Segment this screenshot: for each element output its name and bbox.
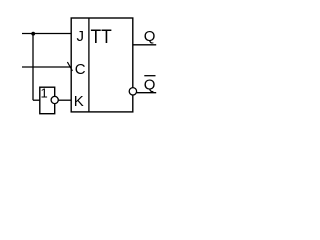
wire Q-bar output — [137, 92, 156, 94]
svg-text:TT: TT — [91, 26, 112, 48]
overbar of Q-bar — [144, 75, 155, 77]
svg-text:K: K — [74, 93, 84, 110]
inversion bubble at Q-bar output — [129, 88, 136, 95]
dynamic input indicator at C — [67, 62, 72, 71]
svg-text:Q: Q — [144, 77, 156, 94]
inverter U2 box — [40, 87, 55, 114]
node junction dot on J wire — [31, 32, 35, 36]
svg-text:J: J — [77, 28, 85, 45]
svg-text:1: 1 — [41, 86, 48, 101]
wire C input horizontal — [22, 66, 71, 68]
wire Q output — [133, 44, 156, 46]
svg-text:Q: Q — [144, 28, 156, 45]
flip-flop divider line — [88, 18, 90, 112]
wire K input from inverter to flip-flop — [58, 99, 71, 101]
svg-text:C: C — [75, 61, 86, 78]
wire J input horizontal — [22, 33, 71, 35]
wire vertical from junction down to inverter input — [32, 34, 34, 101]
wire inverter input horizontal — [33, 99, 40, 101]
flip-flop U1 box — [71, 18, 133, 112]
inverter output inversion bubble — [51, 96, 58, 103]
